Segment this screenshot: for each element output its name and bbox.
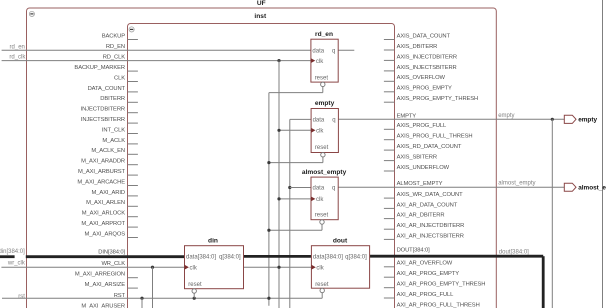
pin CLK (inst left) [114,75,138,81]
wire wr_clk trunk lower [278,267,280,308]
svg-text:clk: clk [190,265,198,271]
svg-text:ALMOST_EMPTY: ALMOST_EMPTY [397,181,443,187]
svg-text:din[384:0]: din[384:0] [0,249,25,255]
svg-text:INJECTSBITERR: INJECTSBITERR [81,117,125,123]
pin AXIS_OVERFLOW (inst right) [384,75,446,81]
svg-text:M_AXI_ARLOCK: M_AXI_ARLOCK [82,211,125,217]
pin M_AXI_ARID (inst left) [92,190,138,196]
junction wr_clk dout clk [277,266,280,269]
pin M_AXI_ARSIZE (inst left) [85,282,138,288]
pin AXIS_DBITERR (inst right) [384,44,437,50]
register rd_en pin clk [311,58,324,65]
svg-text:AXI_AR_PROG_EMPTY_THRESH: AXI_AR_PROG_EMPTY_THRESH [397,282,486,288]
wire din reset drop [193,293,195,298]
register din outline [185,246,244,289]
pin DIN[384:0] (inst left) [98,250,125,256]
svg-text:AXIS_SBITERR: AXIS_SBITERR [397,155,437,161]
svg-text:M_AXI_ARBURST: M_AXI_ARBURST [78,169,126,175]
svg-text:wr_clk: wr_clk [7,261,26,267]
wire almost_empty reset route [269,224,322,230]
wire rd_en net [2,49,311,51]
pin INT_CLK (inst left) [102,127,138,133]
svg-text:data[384:0]: data[384:0] [186,255,216,261]
svg-text:empty: empty [315,100,335,107]
junction wr_clk branch [151,266,154,269]
pin M_AXI_ARPROT (inst left) [81,221,137,227]
pin RD_CLK (inst left) [103,55,126,61]
svg-text:AXIS_OVERFLOW: AXIS_OVERFLOW [397,75,446,81]
pin M_ACLK_EN (inst left) [91,148,137,154]
svg-text:q: q [332,186,335,192]
wire wr_clk branch down [152,267,154,308]
junction rd_clk trunk [277,59,280,62]
svg-text:INJECTDBITERR: INJECTDBITERR [81,107,125,113]
pin AXIS_INJECTSBITERR (inst right) [384,65,457,71]
register rd_en reset bubble [321,82,325,86]
pin AXIS_PROG_EMPTY (inst right) [384,86,452,92]
svg-text:WR_CLK: WR_CLK [101,261,125,267]
register dout outline [311,246,369,289]
wire reset vertical trunk [268,93,270,306]
svg-text:M_AXI_ARLEN: M_AXI_ARLEN [86,200,125,206]
pin AXIS_UNDERFLOW (inst right) [384,165,450,171]
svg-text:reset: reset [315,145,329,151]
svg-text:AXI_AR_OVERFLOW: AXI_AR_OVERFLOW [397,261,453,267]
pin M_AXI_ARADDR (inst left) [81,159,138,165]
svg-text:AXIS_PROG_FULL_THRESH: AXIS_PROG_FULL_THRESH [397,134,473,140]
svg-text:BACKUP_MARKER: BACKUP_MARKER [74,65,125,71]
junction empty clk [277,129,280,132]
pin M_AXI_ARLEN (inst left) [86,200,138,206]
pin AXIS_WR_DATA_COUNT (inst right) [384,192,463,198]
junction rst trunk [267,297,270,300]
svg-text:AXI_AR_DBITERR: AXI_AR_DBITERR [397,213,445,219]
register almost_empty reset bubble [320,220,324,224]
svg-text:reset: reset [315,212,329,218]
pin AXI_AR_DATA_COUNT (inst right) [384,202,458,208]
register almost_empty outline [311,177,338,220]
pin AXIS_INJECTDBITERR (inst right) [384,54,457,60]
svg-text:rst: rst [18,294,25,300]
svg-text:AXIS_PROG_FULL: AXIS_PROG_FULL [397,123,447,129]
register almost_empty pin clk [311,197,324,204]
junction almost_empty reset [267,229,270,232]
bus din[384:0] left segment [0,255,15,258]
svg-text:CLK: CLK [114,75,125,81]
bus din q to dout data [244,255,312,258]
svg-text:DIN[384:0]: DIN[384:0] [98,250,125,256]
svg-text:data: data [313,118,325,124]
svg-text:AXI_AR_PROG_FULL_THRESH: AXI_AR_PROG_FULL_THRESH [397,303,480,308]
wire empty net to port [338,118,564,120]
wire rst branch down [141,298,143,308]
svg-text:AXI_AR_PROG_FULL: AXI_AR_PROG_FULL [397,292,455,298]
pin AXI_AR_INJECTSBITERR (inst right) [384,233,464,239]
svg-text:M_AXI_ARPROT: M_AXI_ARPROT [81,221,125,227]
svg-text:RD_CLK: RD_CLK [103,55,126,61]
svg-text:M_AXI_ARREGION: M_AXI_ARREGION [75,272,125,278]
wire rst net [2,297,322,299]
pin DATA_COUNT (inst left) [88,86,138,92]
junction almost_empty data [288,186,291,189]
pin RD_EN (inst left) [106,44,125,50]
svg-text:M_ACLK: M_ACLK [102,138,125,144]
pin INJECTDBITERR (inst left) [81,107,138,113]
pin AXI_AR_PROG_EMPTY (inst right) [384,271,459,277]
svg-text:empty: empty [498,113,514,119]
wire dout reset route [321,293,323,298]
svg-text:reset: reset [315,282,329,288]
svg-text:DOUT[384:0]: DOUT[384:0] [397,248,431,254]
svg-text:M_AXI_ARCACHE: M_AXI_ARCACHE [77,179,125,185]
pin AXIS_PROG_EMPTY_THRESH (inst right) [384,96,478,102]
wire rd_en q stub [338,49,354,51]
pin AXIS_DATA_COUNT (inst right) [384,33,451,39]
wire rd_en reset route [269,87,323,93]
svg-text:EMPTY: EMPTY [397,113,417,119]
pin ALMOST_EMPTY (inst right) [397,181,443,187]
register dout pin clk [311,265,324,272]
pin AXI_AR_INJECTDBITERR (inst right) [384,223,464,229]
junction empty net [551,118,554,121]
svg-text:clk: clk [316,129,324,135]
module UF block outline [27,8,497,308]
wire rd_clk net [2,60,311,62]
junction almost_empty clk [277,197,280,200]
wire empty reset route [269,157,323,163]
svg-text:rd_en: rd_en [315,31,333,38]
output port almost_empty [564,183,606,191]
svg-text:almost_empty: almost_empty [498,181,535,187]
wire wr_clk mid segment [244,266,312,268]
pin RST (inst left) [114,293,126,299]
svg-text:UF: UF [257,0,266,7]
svg-text:inst: inst [254,13,267,20]
svg-text:DATA_COUNT: DATA_COUNT [88,86,126,92]
svg-text:RD_EN: RD_EN [106,44,125,50]
pin AXI_AR_OVERFLOW (inst right) [384,261,453,267]
svg-text:reset: reset [188,282,202,288]
pin AXI_AR_PROG_FULL_THRESH (inst right) [384,303,480,308]
wire rd_clk vertical trunk [278,61,280,268]
svg-text:M_AXI_ARSIZE: M_AXI_ARSIZE [85,282,126,288]
svg-text:AXIS_PROG_EMPTY: AXIS_PROG_EMPTY [397,86,452,92]
pin M_AXI_ARCACHE (inst left) [77,179,138,185]
output port empty [564,115,597,123]
wire wr_clk net [1,266,184,268]
wire right edge vertical [602,0,604,308]
pin INJECTSBITERR (inst left) [81,117,138,123]
svg-text:M_AXI_ARADDR: M_AXI_ARADDR [81,159,125,165]
junction rst din reset [193,297,196,300]
svg-text:M_AXI_ARID: M_AXI_ARID [92,190,125,196]
svg-text:AXIS_RD_DATA_COUNT: AXIS_RD_DATA_COUNT [397,144,462,150]
pin WR_CLK (inst left) [101,261,125,267]
register din reset bubble [192,289,196,293]
bus dout q to edge [370,256,544,308]
register empty reset bubble [321,153,325,157]
svg-text:AXIS_WR_DATA_COUNT: AXIS_WR_DATA_COUNT [397,192,464,198]
svg-text:dout: dout [333,237,348,244]
svg-text:clk: clk [316,197,324,203]
pin EMPTY (inst right) [397,113,417,119]
svg-text:AXIS_DATA_COUNT: AXIS_DATA_COUNT [397,33,451,39]
svg-text:q: q [332,48,335,54]
wire almost_empty data feed [290,187,311,189]
svg-text:q[384:0]: q[384:0] [345,255,367,261]
junction empty reset [267,161,270,164]
svg-text:dout[384:0]: dout[384:0] [499,250,529,256]
wire empty net vertical [551,119,553,308]
svg-text:q: q [332,118,335,124]
svg-text:AXIS_INJECTDBITERR: AXIS_INJECTDBITERR [397,54,457,60]
wire almost_empty clk feed [279,198,311,200]
register rd_en outline [311,39,338,82]
svg-text:M_AXI_ARUSER: M_AXI_ARUSER [81,304,125,308]
wire empty clk feed [279,129,311,131]
pin AXIS_PROG_FULL_THRESH (inst right) [384,134,473,140]
pin M_AXI_ARUSER (inst left) [81,304,125,308]
instance inst block outline [128,24,395,308]
pin DOUT[384:0] (inst right) [397,248,431,254]
pin M_AXI_ARBURST (inst left) [78,169,138,175]
svg-text:AXIS_DBITERR: AXIS_DBITERR [397,44,438,50]
svg-text:empty: empty [578,117,597,124]
register din pin clk [185,265,198,272]
svg-text:clk: clk [316,59,324,65]
svg-text:BACKUP: BACKUP [102,33,125,39]
pin DBITERR (inst left) [100,96,138,102]
svg-text:AXI_AR_PROG_EMPTY: AXI_AR_PROG_EMPTY [397,271,460,277]
pin AXI_AR_PROG_EMPTY_THRESH (inst right) [384,282,485,288]
register empty pin clk [311,128,324,135]
svg-text:DBITERR: DBITERR [100,96,125,102]
svg-text:clk: clk [316,265,324,271]
pin M_ACLK (inst left) [102,138,138,144]
junction rst branch [140,297,143,300]
UF collapse icon [29,11,34,16]
pin M_AXI_ARREGION (inst left) [75,272,138,278]
svg-text:AXI_AR_INJECTSBITERR: AXI_AR_INJECTSBITERR [397,233,464,239]
pin AXIS_SBITERR (inst right) [384,155,437,161]
svg-text:data: data [313,186,325,192]
wire almost_empty net to port [338,186,564,188]
wire empty data feed [290,119,311,308]
pin AXI_AR_PROG_FULL (inst right) [384,292,454,298]
pin AXIS_PROG_FULL (inst right) [384,123,447,129]
svg-text:M_AXI_ARQOS: M_AXI_ARQOS [85,231,126,237]
pin M_AXI_ARQOS (inst left) [85,231,138,237]
svg-text:data: data [312,48,324,54]
pin M_AXI_ARLOCK (inst left) [82,211,138,217]
svg-text:rd_en: rd_en [10,45,25,51]
svg-text:q[384:0]: q[384:0] [219,255,241,261]
svg-text:INT_CLK: INT_CLK [102,127,125,133]
svg-text:din: din [208,237,218,244]
svg-text:AXIS_INJECTSBITERR: AXIS_INJECTSBITERR [397,65,457,71]
svg-text:almost_empty: almost_empty [302,169,347,176]
pin AXIS_RD_DATA_COUNT (inst right) [384,144,462,150]
svg-text:AXI_AR_DATA_COUNT: AXI_AR_DATA_COUNT [397,202,458,208]
svg-text:AXIS_PROG_EMPTY_THRESH: AXIS_PROG_EMPTY_THRESH [397,96,479,102]
register empty outline [311,109,338,153]
svg-text:AXI_AR_INJECTDBITERR: AXI_AR_INJECTDBITERR [397,223,465,229]
svg-text:reset: reset [315,76,329,82]
pin BACKUP_MARKER (inst left) [74,65,137,71]
bus din[384:0] into din [26,255,185,258]
pin AXI_AR_DBITERR (inst right) [384,213,445,219]
svg-text:AXIS_UNDERFLOW: AXIS_UNDERFLOW [397,165,450,171]
svg-text:M_ACLK_EN: M_ACLK_EN [91,148,125,154]
register dout reset bubble [320,288,324,292]
svg-text:rd_clk: rd_clk [9,55,26,61]
pin BACKUP (inst left) [102,33,138,39]
svg-text:almost_e: almost_e [578,185,606,192]
inst collapse icon [129,27,134,32]
svg-text:data[384:0]: data[384:0] [313,255,343,261]
